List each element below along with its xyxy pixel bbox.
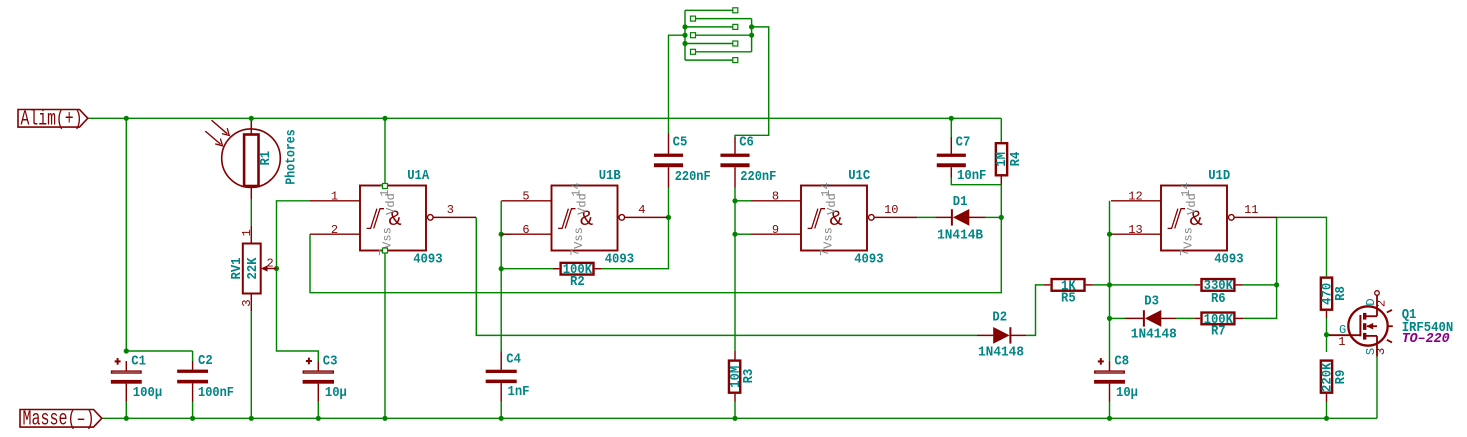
wire U1C pin8 stub xyxy=(735,200,751,202)
diode D2 1N4148 xyxy=(977,334,993,336)
wire U1B pin6 stub xyxy=(501,233,511,235)
wire U1A pin3 output run to D2 xyxy=(476,217,977,335)
svg-text:U1C: U1C xyxy=(848,169,870,184)
wire gate node to Q1 gate xyxy=(1327,334,1331,336)
wire rail down to R4 top xyxy=(1000,118,1002,142)
capacitor C5 220nF xyxy=(668,134,670,154)
node Q1 gate junction xyxy=(1324,332,1329,337)
wire R3 to ground xyxy=(734,401,736,418)
wire cluster row5 xyxy=(685,43,733,45)
wire R6 right to vertical xyxy=(1243,284,1277,286)
wire C6 down to U1C inputs and R3 xyxy=(734,188,736,351)
svg-text:9: 9 xyxy=(772,223,779,237)
capacitor C1 100u polarized xyxy=(125,361,127,371)
svg-text:R7: R7 xyxy=(1211,325,1226,340)
R1 light arrows xyxy=(212,120,228,134)
wire R5 right to node xyxy=(1093,284,1110,286)
wire D3 right to R7 xyxy=(1176,317,1194,319)
svg-text:220nF: 220nF xyxy=(675,170,711,185)
svg-text:R6: R6 xyxy=(1211,292,1226,307)
svg-text:U1B: U1B xyxy=(599,169,621,184)
resistor R8 470 xyxy=(1326,311,1328,318)
wire cluster row3 xyxy=(685,26,733,28)
wire C5 up to unused-pin cluster xyxy=(669,35,686,133)
wire cluster right bus xyxy=(751,19,753,52)
svg-text:10: 10 xyxy=(884,203,898,217)
capacitor C4 1nF xyxy=(500,352,502,370)
capacitor C6 220nF xyxy=(734,137,736,154)
svg-text:2: 2 xyxy=(331,223,338,237)
wire C7 bottom to R4 bottom xyxy=(951,178,1001,185)
svg-text:1: 1 xyxy=(1338,335,1345,349)
wire U1B pin4 to C5 node xyxy=(666,216,669,218)
svg-text:100µ: 100µ xyxy=(133,386,162,401)
svg-text:TO–220: TO–220 xyxy=(1402,332,1450,347)
svg-text:R4: R4 xyxy=(1009,152,1024,167)
wire C2 top xyxy=(192,351,194,361)
svg-text:8: 8 xyxy=(772,189,779,203)
node Masse(-) power label xyxy=(20,410,102,428)
wire Q1 source to ground xyxy=(1376,357,1378,419)
wire cluster row6 xyxy=(695,51,751,53)
RV1 wiper arrow xyxy=(266,268,277,270)
svg-text:D3: D3 xyxy=(1144,295,1159,310)
node cluster pin-end squares left xyxy=(691,16,696,21)
wire U1A pin14 from rail xyxy=(384,118,386,184)
wire R1 to RV1 xyxy=(250,199,252,226)
transistor Q1 IRF540N xyxy=(1348,306,1387,345)
svg-text:R3: R3 xyxy=(742,369,757,384)
wire C4 to ground xyxy=(500,402,502,419)
svg-text:C7: C7 xyxy=(956,136,971,151)
svg-text:R1: R1 xyxy=(259,151,274,166)
node RV1 wiper junction xyxy=(274,266,279,271)
wire C2 to ground xyxy=(192,383,194,401)
wire R9 to ground xyxy=(1326,401,1328,418)
node U1B output junction xyxy=(666,215,671,220)
wire U1D pin11 to R8 xyxy=(1277,217,1327,276)
svg-text:11: 11 xyxy=(1244,203,1258,217)
svg-text:C3: C3 xyxy=(323,354,338,369)
svg-text:C1: C1 xyxy=(131,354,146,369)
wire R6 left xyxy=(1110,284,1195,286)
wire RV1 wiper up to U1A pin1 xyxy=(277,201,311,269)
node bottom rail junctions xyxy=(124,416,129,421)
svg-text:3: 3 xyxy=(447,203,454,217)
svg-text:5: 5 xyxy=(522,189,529,203)
svg-text:1: 1 xyxy=(240,229,254,236)
Q1 unconnected pin ticks xyxy=(1387,310,1392,313)
svg-text:C8: C8 xyxy=(1114,354,1129,369)
op-amp U1D 4093 NAND schmitt gate xyxy=(1111,182,1277,267)
wire D2 cathode up to R5 xyxy=(1026,285,1044,336)
wire RV1 pin3 to ground xyxy=(250,311,252,418)
svg-text:1: 1 xyxy=(331,189,338,203)
svg-text:220nF: 220nF xyxy=(740,170,776,185)
svg-text:R2: R2 xyxy=(570,275,585,290)
wire gate node to R9 xyxy=(1326,335,1328,352)
wire cluster row2 xyxy=(695,18,751,20)
svg-text:1M: 1M xyxy=(995,152,1010,167)
svg-text:R9: R9 xyxy=(1334,370,1349,385)
wire cluster to C6 xyxy=(735,27,769,137)
svg-text:Masse(–): Masse(–) xyxy=(23,408,95,431)
wire R7 right up to pin11 line xyxy=(1243,217,1277,318)
svg-text:R5: R5 xyxy=(1061,292,1076,307)
node cluster junctions xyxy=(682,24,687,29)
Q1 drain/source/body lines xyxy=(1365,315,1377,317)
svg-text:4: 4 xyxy=(638,203,645,217)
svg-text:10µ: 10µ xyxy=(1116,386,1138,401)
svg-text:C6: C6 xyxy=(739,136,754,151)
resistor R7 100K xyxy=(1194,317,1200,319)
potentiometer RV1 22K xyxy=(250,226,252,244)
svg-text:U1D: U1D xyxy=(1208,169,1230,184)
wire R2 right to U1B output xyxy=(602,188,669,269)
wire RV1 wiper down to C3 xyxy=(277,269,319,362)
wire U1A pin2 feedback run xyxy=(310,185,1001,293)
node U1D pin13 junction xyxy=(1107,232,1112,237)
svg-text:6: 6 xyxy=(522,223,529,237)
svg-text:R8: R8 xyxy=(1334,286,1349,301)
svg-text:C5: C5 xyxy=(673,136,688,151)
wire Alim(+) top rail xyxy=(88,117,1002,119)
svg-text:2: 2 xyxy=(1375,300,1389,307)
wire C1/C2 branch from top rail xyxy=(126,118,192,351)
svg-text:13: 13 xyxy=(1128,223,1142,237)
svg-text:2: 2 xyxy=(267,256,274,270)
wire U1B input vertical xyxy=(500,201,502,352)
svg-text:1N4148: 1N4148 xyxy=(978,346,1024,361)
diode D1 1N414B xyxy=(935,216,952,218)
node U1C input junctions xyxy=(732,198,737,203)
node R6 right junction xyxy=(1274,282,1279,287)
wire U1A pin7 to ground xyxy=(384,253,386,419)
node R5/R6 junction xyxy=(1107,282,1112,287)
wire cluster row1 xyxy=(685,9,733,11)
svg-text:3: 3 xyxy=(1374,348,1388,355)
node cluster pin-end squares right xyxy=(733,8,738,13)
U1A power pin squares xyxy=(383,184,388,189)
wire U1C pin9 stub xyxy=(735,233,751,235)
node U1B input junctions xyxy=(499,232,504,237)
capacitor C2 100nF xyxy=(177,370,208,373)
resistor R3 10M xyxy=(734,351,736,360)
wire C3 to ground xyxy=(317,402,319,419)
svg-text:1nF: 1nF xyxy=(508,385,530,400)
wire C1 to ground xyxy=(125,402,127,419)
svg-text:C2: C2 xyxy=(198,354,213,369)
svg-text:22K: 22K xyxy=(246,257,261,280)
wire cluster row7 xyxy=(685,59,733,61)
svg-text:3: 3 xyxy=(240,299,254,306)
wire U1D input node vertical xyxy=(1109,201,1111,361)
svg-text:RV1: RV1 xyxy=(230,257,245,279)
svg-text:D1: D1 xyxy=(953,195,968,210)
resistor R2 100K xyxy=(553,268,559,270)
svg-text:100nF: 100nF xyxy=(198,386,234,401)
capacitor C8 10u polarized xyxy=(1109,361,1111,371)
Q1 channel segments xyxy=(1363,313,1366,320)
resistor R9 220K xyxy=(1326,394,1328,402)
Q1 gate pin xyxy=(1329,334,1360,336)
node C1/C2 junction xyxy=(124,348,129,353)
wire U1C pin10 to D1 xyxy=(917,216,935,218)
node top rail junctions xyxy=(124,116,129,121)
wire D3 left stub xyxy=(1110,317,1126,319)
op-amp U1C 4093 NAND schmitt gate xyxy=(751,182,917,267)
wire D1 to R4 node xyxy=(986,216,1002,218)
svg-text:10nF: 10nF xyxy=(957,169,986,184)
resistor R4 1M xyxy=(1000,177,1002,185)
node Alim(+) power label xyxy=(18,110,88,128)
resistor R1 photoresistor xyxy=(250,121,252,135)
wire R2 left xyxy=(501,268,553,270)
diode D3 1N4148 xyxy=(1125,317,1144,319)
svg-text:1N414B: 1N414B xyxy=(937,228,983,243)
svg-text:10µ: 10µ xyxy=(325,386,347,401)
wire R8 to gate node xyxy=(1326,318,1328,335)
svg-text:Alim(+): Alim(+) xyxy=(21,108,83,131)
op-amp U1B 4093 NAND schmitt gate xyxy=(502,182,668,267)
op-amp U1A 4093 NAND schmitt gate xyxy=(310,182,476,267)
capacitor C7 10nF xyxy=(950,137,952,154)
wire Masse(-) bottom rail xyxy=(102,417,1377,419)
node D1/R4 junction xyxy=(999,215,1004,220)
svg-text:Photores: Photores xyxy=(285,129,300,184)
node D3 junction xyxy=(1107,316,1112,321)
svg-text:12: 12 xyxy=(1128,189,1142,203)
wire cluster left bus xyxy=(684,10,686,60)
wire C8 to ground xyxy=(1109,402,1111,419)
svg-text:1N4148: 1N4148 xyxy=(1131,327,1177,342)
resistor R5 1K xyxy=(1044,284,1050,286)
resistor R6 330K xyxy=(1194,284,1200,286)
wire C7 from rail xyxy=(950,118,952,137)
wire cluster row4 xyxy=(695,34,751,36)
svg-text:D2: D2 xyxy=(992,310,1007,325)
svg-text:C4: C4 xyxy=(506,353,521,368)
capacitor C3 10u polarized xyxy=(317,361,319,371)
Q1 drain open-end circle xyxy=(1375,291,1380,296)
wire R1 top from rail xyxy=(250,118,252,128)
svg-text:U1A: U1A xyxy=(407,169,430,184)
